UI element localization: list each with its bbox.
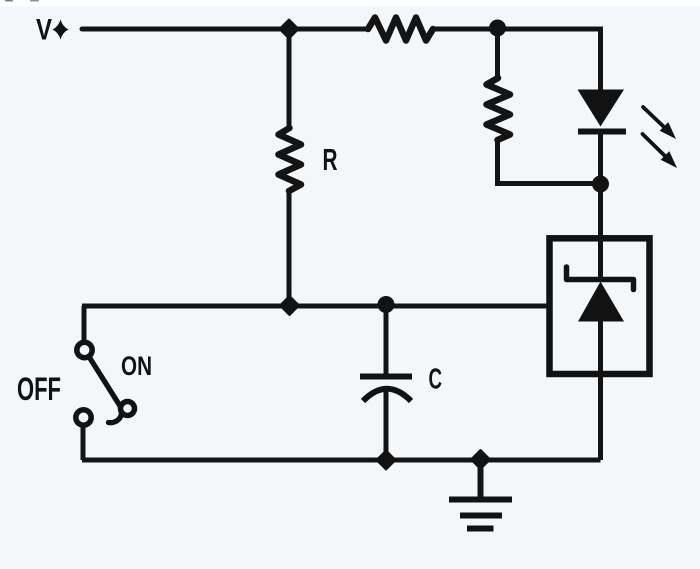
LED D1 anode wire xyxy=(598,29,603,92)
ground bar 3 xyxy=(467,526,494,532)
wire: top resistor to right corner, down to LED xyxy=(433,29,601,92)
SCR vertical line inside box (anode side) xyxy=(598,238,603,280)
svg-text:V: V xyxy=(36,14,52,47)
wire: gate wire corner down to switch xyxy=(82,306,87,341)
node C xyxy=(592,176,609,193)
LED D1 cathode bar xyxy=(578,129,626,135)
wire: node C to SCR box xyxy=(598,184,603,240)
node G xyxy=(471,450,490,469)
LED D1 cathode wire xyxy=(598,131,603,184)
wire: V+ to node A xyxy=(82,27,289,32)
svg-text:ON: ON xyxy=(121,351,152,381)
wire: resistor R2 to node C xyxy=(498,140,602,184)
svg-text:OFF: OFF xyxy=(17,371,61,407)
node A xyxy=(280,20,299,39)
gate wire (middle horizontal) xyxy=(82,304,549,309)
ground stub xyxy=(478,460,484,498)
wire: SCR cathode through box bottom to bottom wire xyxy=(598,321,603,460)
node F xyxy=(377,451,396,470)
LED light arrow 1 xyxy=(643,107,676,139)
SCR triangle xyxy=(578,282,624,322)
node D xyxy=(280,296,299,315)
LED light arrow 2 xyxy=(643,134,678,168)
resistor R xyxy=(279,128,302,191)
capacitor C branch wire bottom xyxy=(384,390,389,460)
switch S1 top terminal xyxy=(77,342,92,357)
capacitor C bottom plate (curved) xyxy=(363,389,411,401)
svg-text:R: R xyxy=(323,142,338,177)
switch S1 bottom terminal (OFF) xyxy=(76,410,91,425)
switch S1 ON contact xyxy=(121,402,135,416)
ground bar 2 xyxy=(460,513,502,519)
switch S1 lever xyxy=(90,358,122,423)
wire: node B down to resistor R2 xyxy=(495,28,500,78)
node B xyxy=(489,20,506,37)
resistor R2 (right, unlabeled) xyxy=(487,78,511,140)
bottom wire xyxy=(82,458,601,463)
ground bar 1 xyxy=(449,497,512,503)
net V+ label xyxy=(36,14,69,47)
top edge crop artifact xyxy=(5,0,39,2)
LED D1 triangle xyxy=(578,90,625,127)
SCR hooked cathode bar xyxy=(567,267,634,290)
wire: switch bottom terminal to bottom wire xyxy=(81,427,86,460)
resistor R1 (top, unlabeled) xyxy=(368,18,433,41)
resistor R vertical wire top xyxy=(287,29,292,128)
node E xyxy=(378,296,395,313)
SCR U1 package box xyxy=(550,238,650,374)
resistor R vertical wire bottom xyxy=(287,191,292,306)
wire: node A to top resistor xyxy=(289,27,368,32)
capacitor C top plate xyxy=(360,374,412,380)
capacitor C branch wire top xyxy=(384,305,389,376)
svg-text:C: C xyxy=(429,364,443,396)
